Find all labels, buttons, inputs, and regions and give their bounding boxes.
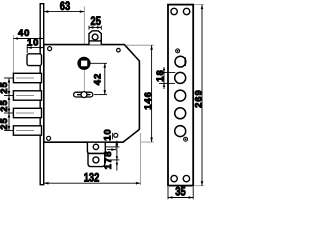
dim 40 xyxy=(13,37,43,40)
wire: extension line left (40 dim) xyxy=(12,35,14,73)
svg-text:132: 132 xyxy=(84,172,100,185)
lock body outline xyxy=(44,45,140,143)
deadbolt hole 4 xyxy=(175,126,186,137)
dim 146 xyxy=(126,45,155,142)
dim 35 xyxy=(168,187,193,199)
handle follower xyxy=(79,58,90,92)
svg-text:17: 17 xyxy=(103,157,114,169)
svg-text:35: 35 xyxy=(175,185,185,198)
deadbolt hole 3 xyxy=(175,108,186,119)
deadbolt hole 1 xyxy=(175,72,186,83)
small hole top-right xyxy=(117,48,121,52)
small hole bottom-left xyxy=(47,136,51,140)
dim 8 / 17 (bottom tab) xyxy=(105,141,119,171)
dim 18 xyxy=(159,67,175,89)
dim 269 xyxy=(195,5,204,186)
svg-text:18: 18 xyxy=(155,69,166,81)
dim chain 25/25/25 (left pins) xyxy=(4,78,13,131)
screw hole bottom-left xyxy=(171,175,177,181)
small pin hole upper xyxy=(176,49,180,53)
svg-text:146: 146 xyxy=(143,91,154,110)
dim 42 xyxy=(90,63,107,94)
svg-text:269: 269 xyxy=(193,89,204,108)
svg-text:25: 25 xyxy=(90,15,100,28)
small pin hole lower xyxy=(184,137,188,141)
svg-text:10: 10 xyxy=(27,38,39,49)
keyhole (double-bit key) xyxy=(74,92,93,98)
dim 132 xyxy=(44,133,140,185)
deadbolt pin 2 xyxy=(13,91,41,100)
latch bolt (side view) xyxy=(27,54,42,66)
faceplate (front view) xyxy=(168,5,193,186)
small hole top-left xyxy=(48,47,52,51)
deadbolt pin 4 xyxy=(13,126,41,135)
latch hole with bolt edge xyxy=(175,56,186,67)
screw hole top-right xyxy=(183,8,189,14)
dim 25 (top tab) xyxy=(89,26,101,30)
deadbolt hole 2 xyxy=(175,90,186,101)
svg-text:8: 8 xyxy=(103,151,114,157)
dim 10 (bottom right of body) xyxy=(107,133,116,151)
dim 10 (upper left) xyxy=(27,45,44,53)
svg-text:25: 25 xyxy=(0,99,10,111)
bottom bracket tab xyxy=(87,142,105,166)
wire: centerline extension through follower xyxy=(83,7,85,58)
deadbolt pin 3 xyxy=(13,108,41,117)
deadbolt pin 1 xyxy=(13,73,41,82)
screw hole bottom-right xyxy=(183,175,189,181)
top mounting tab xyxy=(89,31,101,45)
faceplate edge (side view bar) xyxy=(40,4,44,185)
svg-text:25: 25 xyxy=(0,81,10,93)
svg-text:10: 10 xyxy=(103,128,114,140)
svg-text:25: 25 xyxy=(0,117,10,129)
svg-text:42: 42 xyxy=(92,73,103,85)
small hole bottom-right xyxy=(114,133,118,137)
svg-text:63: 63 xyxy=(60,0,70,13)
screw hole top-left xyxy=(171,8,177,14)
dim 63 xyxy=(44,10,85,13)
